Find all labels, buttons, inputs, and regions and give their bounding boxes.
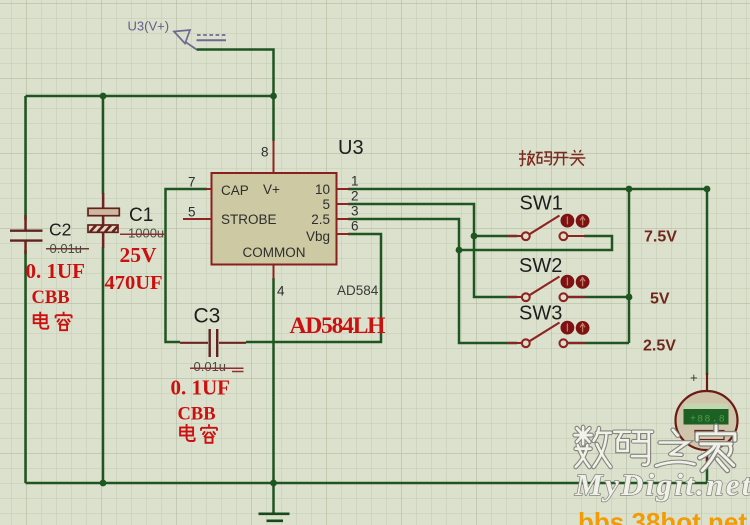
svg-text:2.5: 2.5: [311, 212, 330, 227]
svg-text:3: 3: [351, 204, 359, 219]
wire voltmeter bottom: [706, 448, 709, 483]
wire SW1 left branch: [474, 235, 517, 238]
wire C2 top branch: [24, 96, 27, 220]
svg-text:SW1: SW1: [520, 193, 563, 215]
svg-text:2.5V: 2.5V: [643, 338, 676, 355]
svg-text:5V: 5V: [650, 291, 670, 308]
svg-text:25V: 25V: [120, 243, 158, 267]
wire right bus x629: [628, 189, 631, 343]
node junction SW1 left tap: [471, 233, 478, 240]
SW2 actuator dots: [561, 275, 590, 289]
node junction bottom bus / pin4 column: [270, 480, 277, 487]
svg-text:AD584: AD584: [337, 283, 379, 298]
svg-text:MyDigit.net: MyDigit.net: [574, 467, 750, 502]
node junction SW2 right / right bus: [626, 294, 633, 301]
wire top bus: [26, 95, 274, 98]
svg-text:COMMON: COMMON: [243, 245, 306, 260]
svg-text:bbs.38hot.net: bbs.38hot.net: [578, 507, 747, 525]
wire pin5 stub: [183, 218, 212, 220]
svg-text:5: 5: [322, 197, 330, 212]
svg-text:U3(V+): U3(V+): [128, 19, 170, 34]
node junction SW1 right tap: [456, 247, 463, 254]
hanzi 拨码开关 title: [519, 150, 585, 166]
capacitor C1: [88, 193, 119, 248]
wire bottom ground bus: [26, 482, 708, 485]
wire pin6 Vbg to C3 right: [246, 234, 381, 342]
svg-text:SW2: SW2: [519, 255, 562, 277]
wire pin7 CAP to C3 left: [166, 189, 208, 342]
svg-text:CBB: CBB: [32, 288, 70, 308]
node junction bottom bus / C1: [100, 480, 107, 487]
node junction pin1 wire / right bus: [626, 186, 633, 193]
svg-text:0. 1UF: 0. 1UF: [26, 259, 86, 283]
svg-text:1: 1: [351, 174, 359, 189]
wire pin1 stub: [337, 188, 350, 190]
wire pin7 stub: [206, 188, 212, 190]
wire SW3 right: [567, 342, 629, 345]
svg-text:5: 5: [188, 205, 196, 220]
svg-text:+: +: [690, 370, 698, 385]
node junction top bus / pin8 column: [270, 93, 277, 100]
svg-text:2: 2: [351, 189, 359, 204]
wire SW1 right loop: [459, 236, 612, 250]
svg-text:8: 8: [261, 145, 269, 160]
value label C3 0.01u struck: [190, 359, 244, 374]
svg-text:4: 4: [277, 284, 285, 299]
wire C2 bottom branch: [24, 250, 27, 483]
switch SW2: [507, 277, 585, 302]
svg-text:+88.8: +88.8: [690, 415, 726, 426]
svg-text:Vbg: Vbg: [306, 229, 330, 244]
svg-text:C1: C1: [129, 205, 153, 226]
svg-text:STROBE: STROBE: [221, 212, 277, 227]
value label C2 0.01u struck: [46, 241, 89, 256]
node junction top bus / C1: [100, 93, 107, 100]
wire pin4 stub: [273, 265, 275, 280]
svg-text:10: 10: [315, 182, 330, 197]
svg-text:0.01u: 0.01u: [194, 359, 227, 374]
svg-text:SW3: SW3: [519, 303, 562, 325]
wire pin3 stub: [337, 218, 350, 220]
switch SW1: [507, 216, 585, 241]
value label C1 1000u struck: [120, 226, 166, 241]
svg-text:C3: C3: [194, 305, 221, 328]
wire voltmeter top stub: [706, 373, 708, 392]
wire pin8 stub: [273, 140, 275, 173]
wire C1 top branch: [102, 96, 105, 194]
wire voltmeter bottom stub: [706, 448, 708, 464]
voltmeter: [676, 370, 738, 450]
ground: [259, 514, 290, 521]
wire SW2 right: [567, 296, 629, 299]
svg-text:6: 6: [351, 219, 359, 234]
svg-text:U3: U3: [338, 137, 364, 159]
voltage probe U3(V+): [174, 30, 226, 50]
svg-text:V+: V+: [263, 182, 280, 197]
svg-text:0. 1UF: 0. 1UF: [171, 376, 231, 400]
wire pin2 net to SW2 left: [348, 204, 517, 297]
pin stubs U3: [183, 140, 349, 279]
svg-text:7: 7: [188, 175, 196, 190]
svg-text:C2: C2: [49, 220, 71, 240]
svg-text:470UF: 470UF: [105, 272, 163, 294]
wire pin3 net to SW3 left: [348, 219, 517, 343]
svg-text:AD584LH: AD584LH: [290, 313, 386, 339]
capacitor C3: [180, 329, 246, 357]
wire probe-to-V+ top: [197, 50, 274, 142]
svg-text:1000u: 1000u: [128, 226, 164, 241]
svg-text:CAP: CAP: [221, 183, 249, 198]
svg-text:CBB: CBB: [178, 405, 216, 425]
wire pin2 stub: [337, 203, 350, 205]
hanzi 电容 (left, red): [34, 312, 72, 331]
wire pin6 stub: [337, 233, 350, 235]
wire ground stub: [272, 483, 275, 513]
wire pin1 to voltmeter: [348, 189, 707, 375]
SW3 actuator dots: [561, 321, 590, 335]
switch SW3: [507, 323, 585, 348]
IC U3 AD584 body: [212, 173, 337, 265]
hanzi 电容 (C3, red): [180, 424, 217, 443]
capacitor C2: [10, 215, 43, 254]
node junction pin1 wire / voltmeter corner: [704, 186, 711, 193]
SW1 actuator dots: [561, 214, 590, 228]
wire C1 bottom branch: [102, 247, 105, 483]
svg-text:7.5V: 7.5V: [644, 229, 677, 246]
wire COMMON pin4 to bus: [272, 278, 275, 483]
